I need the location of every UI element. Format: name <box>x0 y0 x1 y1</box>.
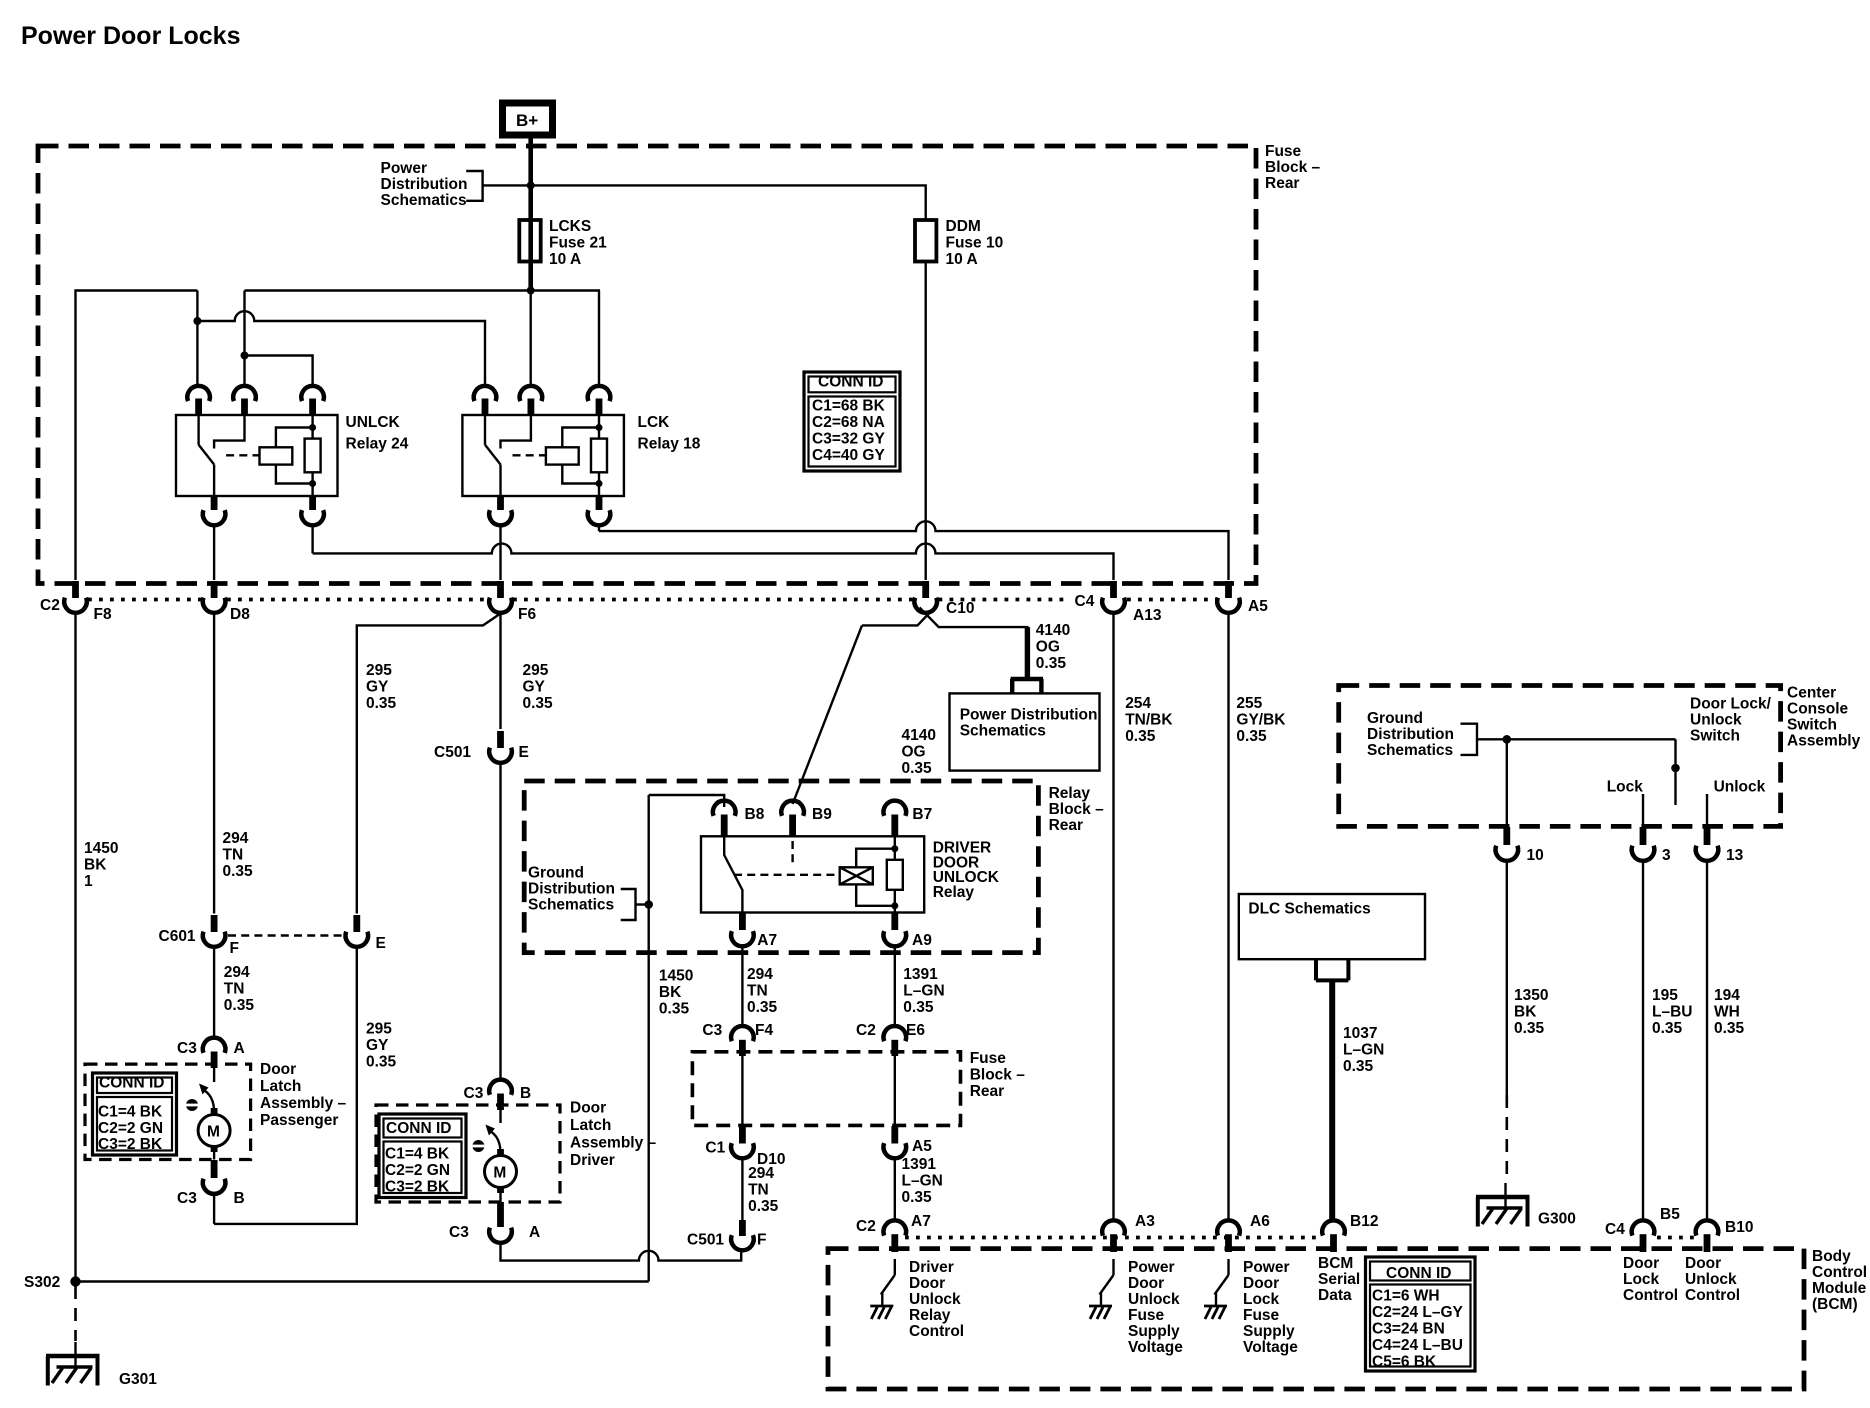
svg-text:Data: Data <box>1318 1287 1352 1304</box>
svg-text:Unlock: Unlock <box>909 1291 961 1308</box>
svg-text:C4: C4 <box>1075 593 1095 610</box>
svg-text:Serial: Serial <box>1318 1271 1360 1288</box>
svg-text:Latch: Latch <box>570 1117 611 1134</box>
svg-text:(BCM): (BCM) <box>1812 1296 1858 1313</box>
BCM switch A7 <box>870 1259 895 1319</box>
junction dot switch feed <box>1503 735 1512 744</box>
wire LCK relay 30 output to upper bus <box>598 527 600 532</box>
svg-text:C4: C4 <box>1605 1221 1625 1238</box>
svg-text:C2=24 L–GY: C2=24 L–GY <box>1372 1304 1464 1321</box>
svg-text:0.35: 0.35 <box>1714 1020 1745 1037</box>
wire bus to UNLCK relay pin 30 <box>196 291 198 388</box>
wire bus across (B+ branch) <box>245 289 601 291</box>
connector cavity A5 (fuse block corner) <box>1217 581 1268 615</box>
svg-text:Lock: Lock <box>1607 779 1644 796</box>
svg-text:Door Lock/: Door Lock/ <box>1690 696 1772 713</box>
svg-text:DDM: DDM <box>946 218 981 235</box>
svg-text:Relay 18: Relay 18 <box>638 436 701 453</box>
svg-text:DLC Schematics: DLC Schematics <box>1248 901 1370 918</box>
connector cavity B9 <box>781 801 832 836</box>
svg-text:BK: BK <box>84 857 107 874</box>
svg-text:L–GN: L–GN <box>1343 1042 1384 1059</box>
svg-text:0.35: 0.35 <box>1236 728 1267 745</box>
fuse block rear box (lower) <box>692 1052 960 1126</box>
wire dashed S302 to G301 <box>74 1286 77 1341</box>
svg-text:Door: Door <box>909 1275 945 1292</box>
center console switch assembly box <box>1339 686 1781 827</box>
wire console ground drop <box>1506 739 1508 826</box>
connector C4 cavity B5 (BCM) <box>1605 1206 1695 1252</box>
box Power Distribution Schematics <box>950 693 1100 770</box>
wire 294 TN from A7 to C3 F4 <box>741 946 743 1025</box>
svg-text:LCK: LCK <box>638 414 671 431</box>
connector cavity A6 (BCM) <box>1217 1213 1270 1252</box>
svg-text:G301: G301 <box>119 1371 157 1388</box>
bracket ground distribution (console) <box>1461 724 1478 755</box>
svg-text:Control: Control <box>1623 1287 1678 1304</box>
wire to UNLCK relay pin 86 with crossover <box>243 291 245 388</box>
wire through fuse block (294) <box>741 1056 743 1126</box>
svg-text:Power: Power <box>1128 1259 1175 1276</box>
wire power distribution feed to DDM fuse <box>483 185 926 220</box>
inline connector C501 cavity F <box>687 1220 766 1250</box>
svg-text:C3=32 GY: C3=32 GY <box>812 431 885 448</box>
wire LCK relay pin 86 drop <box>530 291 532 388</box>
junction dot B+ at LCK relay <box>527 287 535 295</box>
svg-text:F: F <box>757 1232 766 1249</box>
svg-text:Voltage: Voltage <box>1243 1339 1298 1356</box>
svg-text:Relay 24: Relay 24 <box>346 436 409 453</box>
svg-text:Block –: Block – <box>970 1066 1026 1083</box>
svg-text:B+: B+ <box>516 111 538 130</box>
svg-text:C1=6 WH: C1=6 WH <box>1372 1288 1440 1305</box>
passenger latch switch <box>186 1068 214 1112</box>
svg-text:BK: BK <box>1514 1004 1537 1021</box>
svg-text:B: B <box>520 1085 531 1102</box>
connector pin 10 <box>1496 827 1544 864</box>
svg-text:1350: 1350 <box>1514 987 1548 1004</box>
svg-text:Fuse 10: Fuse 10 <box>946 235 1004 252</box>
svg-text:Door: Door <box>1623 1255 1659 1272</box>
svg-text:0.35: 0.35 <box>1514 1020 1545 1037</box>
svg-text:254: 254 <box>1125 695 1151 712</box>
svg-text:Unlock: Unlock <box>1685 1271 1737 1288</box>
inline connector C501 cavity E <box>434 731 529 763</box>
svg-text:B5: B5 <box>1660 1206 1680 1223</box>
wire driver motor A to C501 F with crossover <box>501 1243 742 1261</box>
wire LCK relay pin 85 drop <box>598 291 600 388</box>
BCM switch A6 <box>1204 1259 1229 1319</box>
svg-text:C3=24 BN: C3=24 BN <box>1372 1321 1445 1338</box>
svg-text:Door: Door <box>570 1100 606 1117</box>
svg-text:C3: C3 <box>177 1040 197 1057</box>
svg-text:Driver: Driver <box>909 1259 954 1276</box>
svg-text:M: M <box>207 1124 220 1141</box>
connector cavity F6 <box>489 581 536 623</box>
svg-text:Console: Console <box>1787 701 1849 718</box>
body control module box <box>828 1249 1804 1389</box>
BCM connector row dotted line <box>905 1236 1322 1240</box>
svg-text:A: A <box>234 1040 245 1057</box>
svg-text:3: 3 <box>1662 847 1671 864</box>
svg-text:Assembly –: Assembly – <box>570 1135 657 1152</box>
svg-text:TN: TN <box>223 847 244 864</box>
connector C3 cavity A (driver latch) <box>449 1202 540 1243</box>
svg-text:C3: C3 <box>464 1085 484 1102</box>
wire 1450 BK 1 from F8 to S302 <box>74 613 76 1282</box>
svg-text:Center: Center <box>1787 685 1836 702</box>
svg-text:D8: D8 <box>230 606 250 623</box>
svg-text:1: 1 <box>84 873 93 890</box>
svg-text:OG: OG <box>1036 639 1060 656</box>
svg-text:294: 294 <box>747 966 773 983</box>
svg-text:Schematics: Schematics <box>381 192 467 209</box>
svg-text:Fuse: Fuse <box>970 1050 1007 1067</box>
svg-text:Voltage: Voltage <box>1128 1339 1183 1356</box>
svg-text:Block –: Block – <box>1049 801 1105 818</box>
svg-text:C10: C10 <box>946 600 974 617</box>
svg-text:TN: TN <box>224 980 245 997</box>
svg-text:Fuse: Fuse <box>1128 1307 1165 1324</box>
svg-text:295: 295 <box>366 662 392 679</box>
wire 1037 L-GN serial data <box>1329 980 1335 1220</box>
connector id table CONN ID (passenger latch) <box>93 1073 177 1155</box>
svg-text:G300: G300 <box>1538 1211 1576 1228</box>
connector pin 3 <box>1632 827 1671 864</box>
svg-text:B12: B12 <box>1350 1213 1378 1230</box>
connector row dotted line C2 <box>88 598 1066 602</box>
bracket below DLC box <box>1316 959 1348 980</box>
wire 4140 OG diagonal to B9 <box>793 625 862 804</box>
wire 1391 L-GN from A5 to C2 A7 <box>894 1158 896 1220</box>
svg-text:A5: A5 <box>1248 598 1268 615</box>
svg-text:Door: Door <box>1243 1275 1279 1292</box>
svg-text:C2: C2 <box>40 597 60 614</box>
connector C3 cavity B (driver latch) <box>464 1080 532 1110</box>
svg-text:C2: C2 <box>856 1022 876 1039</box>
svg-text:Distribution: Distribution <box>528 881 615 898</box>
svg-text:294: 294 <box>748 1165 774 1182</box>
dashed connector link F to E <box>228 934 344 936</box>
svg-text:Block –: Block – <box>1265 159 1321 176</box>
svg-text:Body: Body <box>1812 1248 1851 1265</box>
wire through fuse block (1391) <box>894 1056 896 1126</box>
svg-text:C4=24 L–BU: C4=24 L–BU <box>1372 1337 1463 1354</box>
svg-text:B8: B8 <box>745 806 765 823</box>
svg-text:Schematics: Schematics <box>960 722 1046 739</box>
junction dot B+ feed <box>527 181 535 189</box>
connector cavity B12 (BCM) <box>1322 1213 1378 1252</box>
svg-text:B10: B10 <box>1725 1219 1753 1236</box>
svg-text:L–BU: L–BU <box>1652 1004 1692 1021</box>
svg-text:Power: Power <box>381 160 428 177</box>
wire 294 TN from C601 F to C3 A <box>213 947 215 1039</box>
junction dot <box>193 317 201 325</box>
svg-text:C3: C3 <box>177 1190 197 1207</box>
connector id table CONN ID (BCM) <box>1366 1257 1476 1371</box>
svg-text:Rear: Rear <box>1265 175 1299 192</box>
svg-text:294: 294 <box>223 830 249 847</box>
svg-text:194: 194 <box>1714 987 1740 1004</box>
svg-text:CONN ID: CONN ID <box>99 1075 164 1092</box>
svg-text:S302: S302 <box>24 1274 60 1291</box>
svg-text:Supply: Supply <box>1128 1323 1180 1340</box>
svg-text:Module: Module <box>1812 1280 1867 1297</box>
connector C2 cavity A7 (BCM) <box>856 1213 931 1252</box>
wire 1391 L-GN from A9 to C2 E6 <box>894 946 896 1025</box>
svg-text:F4: F4 <box>755 1022 773 1039</box>
svg-text:Schematics: Schematics <box>1367 742 1453 759</box>
svg-text:Power Door Locks: Power Door Locks <box>21 22 241 50</box>
svg-text:C501: C501 <box>434 744 471 761</box>
svg-text:10 A: 10 A <box>549 251 581 268</box>
svg-text:C2: C2 <box>856 1218 876 1235</box>
svg-text:TN: TN <box>747 983 768 1000</box>
relay DRIVER DOOR UNLOCK <box>701 836 924 912</box>
svg-text:195: 195 <box>1652 987 1678 1004</box>
svg-text:Power Distribution: Power Distribution <box>960 706 1098 723</box>
svg-text:BCM: BCM <box>1318 1255 1353 1272</box>
connector pin 13 <box>1696 827 1744 864</box>
connector cavity A9 (relay out) <box>884 913 933 950</box>
svg-text:E: E <box>519 744 529 761</box>
svg-text:Driver: Driver <box>570 1152 615 1169</box>
svg-text:0.35: 0.35 <box>747 999 778 1016</box>
svg-text:C3=2 BK: C3=2 BK <box>385 1178 450 1195</box>
svg-text:GY: GY <box>523 679 546 696</box>
junction dot ground distribution <box>644 900 653 909</box>
svg-text:Rear: Rear <box>970 1083 1004 1100</box>
connector C4 cavity A13 <box>1075 581 1217 624</box>
svg-text:A5: A5 <box>912 1138 932 1155</box>
svg-text:13: 13 <box>1726 847 1744 864</box>
svg-text:OG: OG <box>902 744 926 761</box>
svg-text:Door: Door <box>1685 1255 1721 1272</box>
svg-text:B9: B9 <box>812 806 832 823</box>
svg-text:TN: TN <box>748 1182 769 1199</box>
wire 254 TN/BK from C4 to A3 <box>1112 613 1114 1221</box>
svg-text:Unlock: Unlock <box>1128 1291 1180 1308</box>
ground G301 <box>46 1342 157 1388</box>
svg-text:Fuse: Fuse <box>1243 1307 1280 1324</box>
svg-text:1391: 1391 <box>902 1156 937 1173</box>
connector id table CONN ID (fuse block) <box>804 372 900 471</box>
svg-text:0.35: 0.35 <box>366 695 397 712</box>
junction dot UNLCK coil branch <box>241 352 249 360</box>
svg-text:F8: F8 <box>94 606 112 623</box>
relay UNLCK Relay 24 <box>176 386 338 525</box>
connector C2 cavity F8 <box>40 581 112 623</box>
svg-text:L–GN: L–GN <box>903 983 944 1000</box>
svg-text:C5=6 BK: C5=6 BK <box>1372 1354 1437 1371</box>
connector cavity B7 <box>884 801 933 836</box>
connector cavity A3 (BCM) <box>1102 1213 1155 1252</box>
svg-text:Door: Door <box>260 1061 296 1078</box>
wire splice bus S302 to 1450 BK <box>76 1280 649 1282</box>
wire UNLCK coil branch <box>245 356 313 388</box>
bracket to power distribution schematics box <box>1011 679 1044 693</box>
switch unlock contact <box>1706 794 1708 826</box>
wire 295 GY below C501 E to driver latch <box>499 763 501 1080</box>
wire 1350 BK to ground distribution <box>1506 861 1508 1095</box>
wire upper bus to A5 with crossover hump <box>599 521 1229 580</box>
connector cavity B8 <box>713 801 765 836</box>
relay block rear box <box>524 781 1038 953</box>
svg-text:Lock: Lock <box>1243 1291 1280 1308</box>
svg-text:Supply: Supply <box>1243 1323 1295 1340</box>
svg-text:Door: Door <box>1128 1275 1164 1292</box>
svg-text:GY: GY <box>366 679 389 696</box>
fuse DDM Fuse 10 <box>915 218 1003 268</box>
svg-text:0.35: 0.35 <box>748 1198 779 1215</box>
box DLC Schematics <box>1239 894 1425 959</box>
wire B+ through LCKS fuse <box>528 185 533 290</box>
wire 1450 BK 0.35 ground drop <box>648 795 650 1282</box>
svg-text:1391: 1391 <box>903 966 938 983</box>
door latch assembly passenger box <box>85 1064 251 1159</box>
relay LCK Relay 18 <box>462 386 624 525</box>
connector C3 cavity A (passenger latch) <box>177 1038 245 1068</box>
svg-text:F6: F6 <box>518 606 536 623</box>
svg-text:WH: WH <box>1714 1004 1740 1021</box>
connector C3 cavity B (passenger latch) <box>177 1160 245 1207</box>
svg-text:0.35: 0.35 <box>523 695 554 712</box>
svg-text:C1=4 BK: C1=4 BK <box>98 1104 163 1121</box>
svg-text:B: B <box>234 1190 245 1207</box>
svg-text:Control: Control <box>1685 1287 1740 1304</box>
svg-text:E: E <box>376 935 386 952</box>
svg-text:C2=2 GN: C2=2 GN <box>98 1120 163 1137</box>
fuse LCKS Fuse 21 <box>519 218 607 268</box>
svg-text:CONN ID: CONN ID <box>818 374 883 391</box>
svg-text:294: 294 <box>224 964 250 981</box>
wire bus left to C2/F8 <box>76 291 198 581</box>
motor M driver <box>485 1149 517 1202</box>
connector C1 cavity D10 <box>705 1126 785 1168</box>
connector C2 cavity E6 <box>856 1022 925 1056</box>
svg-text:0.35: 0.35 <box>902 760 933 777</box>
svg-text:C1: C1 <box>705 1139 725 1156</box>
bracket ground distribution <box>621 889 636 920</box>
ground G300 <box>1476 1183 1576 1228</box>
svg-text:Relay: Relay <box>933 884 975 901</box>
node S302 <box>24 1274 81 1291</box>
svg-text:Unlock: Unlock <box>1714 779 1766 796</box>
wire 195 L-BU from pin 3 to C4 B5 <box>1642 861 1644 1221</box>
svg-text:Control: Control <box>1812 1264 1867 1281</box>
svg-text:Ground: Ground <box>528 865 584 882</box>
svg-text:0.35: 0.35 <box>659 1001 690 1018</box>
svg-text:0.35: 0.35 <box>902 1189 933 1206</box>
svg-text:0.35: 0.35 <box>1343 1058 1374 1075</box>
svg-text:0.35: 0.35 <box>1036 655 1067 672</box>
svg-text:C1=68 BK: C1=68 BK <box>812 398 886 415</box>
svg-text:TN/BK: TN/BK <box>1125 712 1173 729</box>
svg-text:Switch: Switch <box>1690 728 1740 745</box>
door latch assembly driver box <box>376 1105 560 1202</box>
bracket to power distribution schematics <box>466 171 482 201</box>
svg-text:B7: B7 <box>912 806 932 823</box>
svg-text:GY/BK: GY/BK <box>1236 712 1286 729</box>
wire crossover hump to LCK relay pin 30 <box>197 311 485 387</box>
svg-text:GY: GY <box>366 1037 389 1054</box>
connector C10 splice X <box>862 608 1027 678</box>
svg-text:A7: A7 <box>757 932 777 949</box>
wire B+ down to junction <box>528 139 533 187</box>
svg-text:C3: C3 <box>449 1224 469 1241</box>
svg-text:E6: E6 <box>906 1022 925 1039</box>
svg-text:10: 10 <box>1527 847 1544 864</box>
svg-text:Passenger: Passenger <box>260 1112 338 1129</box>
svg-text:BK: BK <box>659 984 682 1001</box>
svg-text:0.35: 0.35 <box>366 1054 397 1071</box>
wire 295 GY from F6 to C501 E <box>499 613 501 729</box>
wire 294 TN from D8 to C601 F <box>213 613 215 914</box>
driver latch switch <box>472 1110 500 1153</box>
connector cavity A5 (lower) <box>884 1126 933 1158</box>
wire dashed to G300 <box>1506 1095 1509 1183</box>
svg-text:1037: 1037 <box>1343 1025 1377 1042</box>
svg-text:Assembly: Assembly <box>1787 733 1861 750</box>
svg-text:Latch: Latch <box>260 1078 301 1095</box>
wire DDM fuse down to C10 <box>925 262 927 581</box>
svg-text:255: 255 <box>1236 695 1262 712</box>
svg-text:Fuse: Fuse <box>1265 143 1302 160</box>
svg-text:4140: 4140 <box>902 727 936 744</box>
svg-text:C2=68 NA: C2=68 NA <box>812 414 885 431</box>
battery feed B+ <box>503 103 553 135</box>
svg-text:C2=2 GN: C2=2 GN <box>385 1162 450 1179</box>
svg-text:C3=2 BK: C3=2 BK <box>98 1136 163 1153</box>
svg-text:Relay: Relay <box>1049 785 1091 802</box>
switch common wire <box>1477 738 1676 740</box>
svg-text:C1=4 BK: C1=4 BK <box>385 1145 450 1162</box>
svg-text:UNLCK: UNLCK <box>346 414 401 431</box>
junction dot switch pivot <box>1671 764 1680 773</box>
connector cavity B10 (BCM) <box>1696 1219 1754 1252</box>
wire 255 GY/BK from A5 to A6 <box>1227 613 1229 1221</box>
svg-text:M: M <box>493 1165 506 1182</box>
connector C3 cavity F4 <box>702 1022 773 1056</box>
wire 295 GY from E down to passenger latch return <box>214 947 357 1224</box>
svg-text:Lock: Lock <box>1623 1271 1660 1288</box>
svg-text:0.35: 0.35 <box>224 997 255 1014</box>
svg-text:0.35: 0.35 <box>903 999 934 1016</box>
svg-text:A9: A9 <box>912 932 932 949</box>
svg-text:L–GN: L–GN <box>902 1173 943 1190</box>
svg-text:Distribution: Distribution <box>1367 726 1454 743</box>
wire UNLCK relay 30 output to lower bus <box>311 527 313 554</box>
svg-text:F: F <box>230 940 239 957</box>
svg-text:Control: Control <box>909 1323 964 1340</box>
svg-text:Distribution: Distribution <box>381 176 468 193</box>
svg-text:C601: C601 <box>159 928 196 945</box>
svg-text:LCKS: LCKS <box>549 218 591 235</box>
svg-text:Unlock: Unlock <box>1690 712 1742 729</box>
wire B8 feed <box>649 795 725 807</box>
switch lock contact <box>1642 794 1644 826</box>
svg-text:Rear: Rear <box>1049 817 1083 834</box>
fuse block rear box (top) <box>38 146 1256 584</box>
svg-text:0.35: 0.35 <box>1125 728 1156 745</box>
wire lower bus to C4 with crossover humps <box>313 544 1114 580</box>
svg-text:Schematics: Schematics <box>528 897 614 914</box>
svg-text:Power: Power <box>1243 1259 1290 1276</box>
wire passenger motor B return <box>213 1194 215 1224</box>
svg-text:A13: A13 <box>1133 607 1162 624</box>
connector cavity C10 <box>914 581 974 617</box>
svg-text:4140: 4140 <box>1036 622 1070 639</box>
